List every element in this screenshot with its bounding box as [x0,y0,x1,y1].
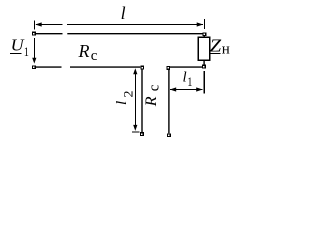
dimension l left arrowhead [35,22,41,26]
dimension l right arrowhead [197,22,203,26]
svg-text:Z: Z [210,36,223,56]
wire: bottom conductor left segment [36,66,62,68]
wire: stub left conductor [141,69,143,132]
dimension l1 (distance stub to load) [170,89,202,91]
wire: bottom conductor right segment (stub to load) [170,66,202,68]
wire: top conductor left segment [36,33,63,35]
node: stub right wire top [167,67,170,70]
wire: bottom conductor middle segment [70,66,140,68]
node: stub left wire bottom [141,133,144,136]
dimension l2 (stub length) [135,72,137,127]
svg-text:1: 1 [187,74,192,89]
node: bottom left terminal [32,66,35,69]
dimension l line right segment [67,24,203,26]
svg-text:l: l [114,101,130,105]
svg-text:l: l [183,69,187,85]
svg-text:U: U [11,36,25,55]
wire: stub right conductor [168,70,170,134]
node: bottom right terminal (below load) [203,65,206,68]
node: top left terminal [32,32,35,35]
svg-text:l: l [121,3,126,23]
arrow U1 (input voltage direction) [34,38,36,60]
node: top right terminal [203,33,206,36]
dimension l2 bottom tick [132,131,139,133]
svg-text:2: 2 [120,91,135,98]
svg-text:н: н [222,42,230,58]
svg-text:c: c [91,48,98,64]
svg-text:R: R [143,96,160,107]
wire: node to box top stem [203,36,205,38]
dimension l extension tick right [204,19,206,29]
node: stub left wire top [141,66,144,69]
wire: top conductor right segment [67,33,202,35]
dimension l1 right extension line [203,71,205,93]
svg-text:1: 1 [24,44,29,59]
dimension l extension tick left [34,21,36,30]
node: stub right wire bottom [168,134,171,137]
dimension l line left segment [36,24,63,26]
resistor ZH (load impedance box) [198,37,209,60]
label l2 (rotated) [114,91,135,106]
svg-text:R: R [78,41,90,61]
label Rc of stub (rotated) [143,84,162,107]
svg-text:c: c [147,84,163,91]
wire: box bottom to node stem [203,60,205,65]
